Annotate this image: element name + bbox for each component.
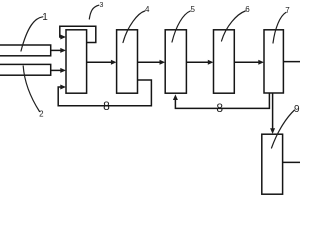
arrowhead loop into box3 (60, 35, 66, 40)
svg-text:7: 7 (285, 6, 290, 15)
leader line for 2 (23, 66, 39, 112)
feedback wire 8 box4 to box3 (58, 80, 151, 106)
svg-text:8: 8 (216, 101, 223, 115)
feedback wire 8 box7 to box5 (175, 93, 269, 108)
leader line for 3 (89, 5, 99, 19)
input bar 2 (0, 64, 51, 75)
box 6 (214, 30, 235, 93)
wire bar2 to box3 (51, 69, 64, 71)
arrowhead up into box5 bottom (173, 94, 178, 100)
arrowhead into box5 left (160, 60, 166, 65)
box 8 (262, 134, 283, 194)
svg-text:3: 3 (99, 2, 103, 9)
arrowhead bar2 into box3 (60, 68, 66, 73)
svg-text:1: 1 (42, 12, 48, 23)
box 4 (117, 30, 138, 93)
feedback loop around box 3 (60, 26, 96, 42)
box 5 (165, 30, 186, 93)
leader line for 7 (273, 13, 286, 44)
wire box6 to box7 (234, 61, 262, 63)
box 3 (66, 30, 87, 93)
arrowhead down into box8 top (270, 128, 275, 134)
wire box3 to box4 (87, 61, 115, 63)
svg-text:9: 9 (294, 104, 300, 115)
arrowhead bar1 into box3 (60, 48, 66, 53)
leader line for 4 (123, 11, 145, 43)
leader line for 6 (222, 11, 246, 41)
arrowhead into box7 (258, 60, 264, 65)
wire bar1 to box3 (51, 49, 64, 51)
wire box7 down to box8 (272, 93, 274, 132)
arrowhead into box4 (111, 60, 117, 65)
wire box5 to box6 (186, 61, 211, 63)
arrowhead into box6 (208, 60, 214, 65)
leader line for 5 (172, 11, 190, 42)
wire box7 output right (283, 61, 300, 63)
wire box8 output right (283, 161, 300, 163)
input bar 1 (0, 45, 51, 56)
wire box4 to box5 (138, 61, 164, 63)
svg-text:5: 5 (190, 5, 195, 14)
svg-text:2: 2 (39, 110, 44, 119)
svg-text:6: 6 (245, 5, 250, 14)
arrowhead feedback into box3 (60, 85, 66, 90)
leader line for 1 (21, 17, 43, 51)
svg-text:8: 8 (103, 99, 110, 113)
leader line for 9 (272, 110, 295, 148)
svg-text:4: 4 (145, 5, 150, 14)
box 7 (264, 30, 283, 93)
